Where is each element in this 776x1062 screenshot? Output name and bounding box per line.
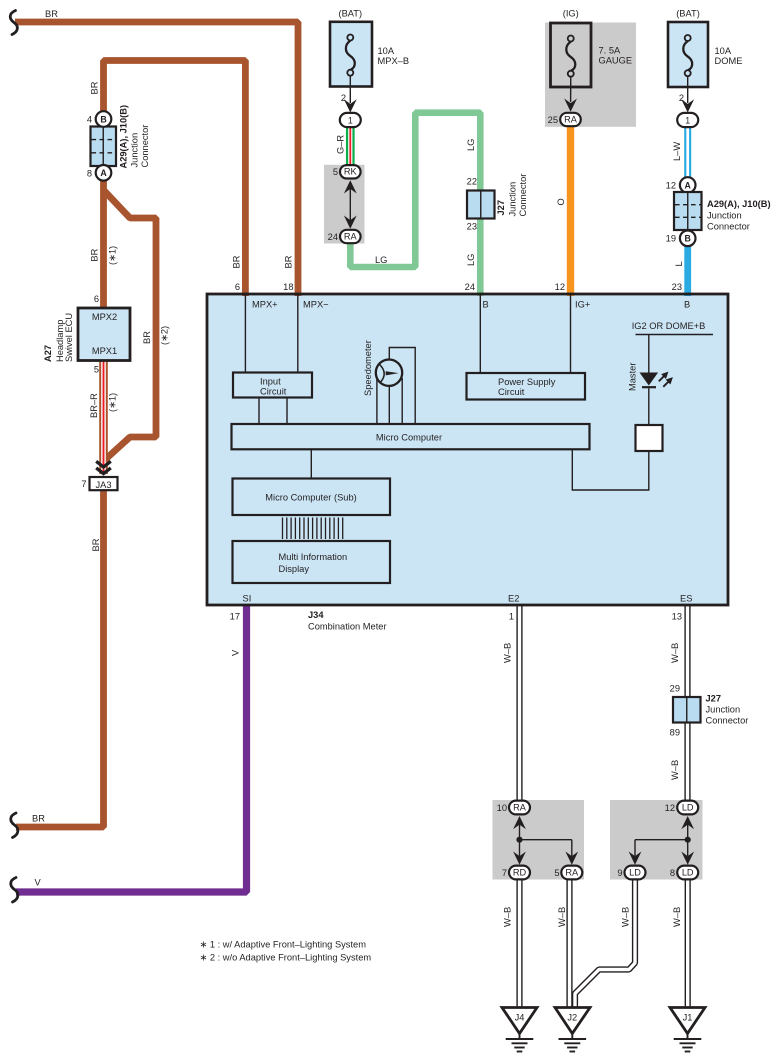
svg-text:Micro Computer (Sub): Micro Computer (Sub)	[265, 493, 356, 503]
svg-text:LD: LD	[682, 868, 694, 878]
main box J34 fill	[207, 294, 728, 605]
svg-text:A29(A), J10(B): A29(A), J10(B)	[707, 199, 771, 209]
svg-text:5: 5	[333, 167, 338, 177]
svg-text:ES: ES	[680, 594, 692, 604]
svg-text:LD: LD	[682, 803, 694, 813]
pin B circle of right junction connector	[680, 231, 696, 247]
pin A circle of left junction connector	[96, 165, 112, 181]
svg-text:W–B: W–B	[672, 907, 682, 927]
svg-text:23: 23	[467, 222, 477, 232]
svg-text:SI: SI	[243, 594, 252, 604]
arrow down into LD 8	[687, 840, 689, 856]
svg-text:RK: RK	[344, 167, 358, 177]
svg-text:IG2 OR DOME+B: IG2 OR DOME+B	[632, 321, 706, 331]
svg-text:Junction: Junction	[508, 182, 518, 217]
wire from resistor to micro computer	[572, 450, 649, 491]
svg-text:Connector: Connector	[140, 125, 150, 168]
svg-text:(IG): (IG)	[563, 9, 579, 19]
svg-text:W–B: W–B	[670, 643, 680, 663]
svg-text:B: B	[483, 300, 489, 310]
ground J4 triangle	[502, 1008, 537, 1034]
svg-text:W–B: W–B	[621, 907, 631, 927]
svg-text:W–B: W–B	[557, 907, 567, 927]
wire LG from RA over to pin 24 B	[350, 113, 480, 296]
svg-text:A: A	[100, 168, 107, 178]
svg-text:5: 5	[94, 365, 99, 375]
svg-text:7: 7	[502, 868, 507, 878]
break symbol BR bottom-left	[11, 813, 18, 838]
svg-text:W–B: W–B	[503, 643, 513, 663]
svg-text:Power Supply: Power Supply	[498, 377, 556, 387]
svg-text:10A: 10A	[378, 46, 395, 56]
wire BR junction A down to A27 ECU pin 6	[100, 178, 107, 309]
svg-text:BR: BR	[45, 9, 58, 19]
wire across to LD 9 branch	[635, 839, 688, 841]
stub micro computer to sub	[310, 449, 312, 478]
svg-text:24: 24	[328, 232, 338, 242]
wire W-B from RD to ground J4	[516, 880, 522, 1008]
arrow down into LD 9	[634, 840, 636, 856]
svg-text:B: B	[100, 114, 106, 124]
wire W-B from RA to ground J2	[566, 880, 572, 1008]
wire O orange from RA to pin 12 IG+	[567, 126, 574, 296]
LED master indicator	[640, 335, 676, 426]
svg-text:17: 17	[230, 612, 240, 622]
svg-text:12: 12	[666, 180, 676, 190]
svg-text:BR–R: BR–R	[89, 393, 99, 418]
ground J1 earth bars	[674, 1031, 702, 1052]
svg-text:13: 13	[672, 612, 682, 622]
svg-text:Display: Display	[279, 564, 310, 574]
svg-text:Circuit: Circuit	[260, 387, 287, 397]
svg-text:A27: A27	[43, 345, 53, 362]
svg-text:LG: LG	[375, 255, 387, 265]
svg-text:MPX−: MPX−	[303, 300, 329, 310]
wire L-W striped from circle 1 to junction A	[684, 127, 691, 178]
svg-text:MPX1: MPX1	[92, 346, 117, 356]
fuse DOME element	[683, 35, 692, 76]
svg-text:MPX2: MPX2	[92, 312, 117, 322]
svg-text:L–W: L–W	[672, 142, 682, 161]
junction connector J27 bottom box	[673, 697, 701, 723]
svg-text:22: 22	[467, 177, 477, 187]
svg-text:18: 18	[283, 282, 293, 292]
fuse GAUGE element	[566, 36, 575, 77]
svg-text:RA: RA	[565, 868, 579, 878]
break symbol V bottom-left	[11, 878, 18, 903]
stubs input circuit to micro computer	[258, 398, 260, 425]
svg-text:9: 9	[617, 868, 622, 878]
svg-text:Multi Information: Multi Information	[279, 552, 348, 562]
svg-text:BR: BR	[284, 255, 294, 268]
ground J1 triangle	[670, 1008, 705, 1034]
svg-text:BR: BR	[232, 255, 242, 268]
svg-text:J27: J27	[496, 200, 506, 216]
arrow from fuse to circle 1	[687, 76, 689, 103]
arrow down into RA 5	[571, 840, 573, 856]
wire W-B from pin 13 ES down to LD	[684, 604, 690, 800]
wire W-B from pin 1 E2 down to RA	[516, 604, 522, 800]
wire BR-R (*1) striped below A27	[99, 360, 108, 474]
svg-text:BR: BR	[32, 814, 45, 824]
pin A circle of right junction connector	[680, 177, 696, 193]
wire L cyan from junction B to pin 23 B	[684, 245, 691, 296]
svg-text:(BAT): (BAT)	[339, 9, 363, 19]
svg-text:Connector: Connector	[706, 716, 749, 726]
svg-text:A: A	[685, 180, 692, 190]
svg-text:∗ 1 : w/ Adaptive Front–Lighti: ∗ 1 : w/ Adaptive Front–Lighting System	[200, 940, 367, 950]
svg-text:Swivel ECU: Swivel ECU	[64, 313, 74, 362]
A27 Headlamp Swivel ECU box	[78, 308, 130, 361]
fuse MPX-B element	[346, 35, 355, 76]
wire BR (*2) branch bypassing A27	[103, 190, 157, 462]
gray shield box behind GAUGE fuse	[545, 23, 636, 127]
svg-text:BR: BR	[90, 248, 100, 261]
svg-text:LD: LD	[629, 868, 641, 878]
svg-text:J4: J4	[515, 1013, 525, 1023]
svg-text:Connector: Connector	[707, 222, 750, 232]
arrow from fuse to RA	[570, 77, 572, 103]
svg-text:10: 10	[497, 803, 507, 813]
svg-text:BR: BR	[91, 538, 101, 551]
wire across to RA branch	[520, 839, 572, 841]
svg-text:1: 1	[348, 115, 353, 125]
svg-text:Combination Meter: Combination Meter	[308, 622, 387, 632]
wire BR from junction connector B up and over to MPX+ pin 6	[104, 61, 246, 297]
svg-text:12: 12	[665, 803, 675, 813]
ground J2 earth bars	[559, 1031, 587, 1052]
junction dot right ground block	[685, 837, 691, 843]
svg-text:RA: RA	[564, 115, 578, 125]
svg-text:4: 4	[87, 115, 92, 125]
micro computer box	[232, 424, 590, 449]
svg-text:1: 1	[509, 612, 514, 622]
svg-text:10A: 10A	[715, 46, 732, 56]
pin stub MPX+	[244, 295, 246, 373]
fuse GAUGE box	[551, 23, 592, 87]
input circuit box	[233, 373, 312, 398]
svg-text:J2: J2	[567, 1013, 577, 1023]
junction connector A29(A) J10(B) left box	[91, 127, 117, 167]
relay connector RA	[340, 230, 361, 243]
pin B circle of left junction connector	[96, 111, 112, 127]
svg-text:8: 8	[670, 868, 675, 878]
svg-text:BR: BR	[142, 331, 152, 344]
pin stub MPX-	[297, 295, 299, 373]
arrow from fuse to circle 1	[349, 76, 351, 104]
svg-text:A29(A), J10(B): A29(A), J10(B)	[119, 105, 129, 169]
svg-text:(∗2): (∗2)	[160, 326, 170, 345]
relay connector LD 9	[625, 866, 646, 880]
svg-text:Connector: Connector	[518, 174, 528, 217]
relay connector LD top of right ground block	[677, 801, 698, 815]
svg-text:JA3: JA3	[95, 480, 111, 490]
svg-text:BR: BR	[90, 81, 100, 94]
fuse DOME box	[668, 22, 708, 87]
wire BR below JA3 to bottom-left break	[16, 490, 104, 827]
relay connector LD 8	[677, 866, 698, 880]
svg-text:7: 7	[81, 479, 86, 489]
svg-text:Speedometer: Speedometer	[363, 340, 373, 396]
wire W-B from LD 9 jog to ground J2	[575, 880, 635, 1008]
circle 1 connector	[340, 113, 361, 127]
junction connector J27 top box	[467, 191, 495, 219]
svg-text:7. 5A: 7. 5A	[599, 46, 622, 56]
svg-text:MPX–B: MPX–B	[378, 56, 410, 66]
svg-text:J1: J1	[683, 1013, 693, 1023]
relay connector RA 5	[561, 866, 582, 880]
ground J2 triangle	[555, 1008, 590, 1034]
power supply circuit box	[467, 373, 586, 400]
svg-text:GAUGE: GAUGE	[599, 56, 633, 66]
svg-text:Junction: Junction	[706, 705, 741, 715]
svg-text:RD: RD	[513, 868, 527, 878]
svg-text:B: B	[685, 234, 691, 244]
ribbon comb between sub and display	[283, 518, 343, 540]
junction connector A29(A) J10(B) right box	[674, 192, 702, 230]
svg-text:6: 6	[94, 294, 99, 304]
relay connector RA top of ground block	[509, 801, 530, 815]
svg-text:RA: RA	[344, 232, 358, 242]
relay connector RD	[509, 866, 530, 880]
wire W-B from LD 8 to ground J1	[685, 880, 691, 1008]
relay connector RA (gauge)	[560, 113, 581, 126]
svg-text:J34: J34	[308, 610, 324, 620]
main box J34 border	[207, 294, 728, 605]
double chevron splice arrows above JA3	[96, 461, 111, 473]
svg-text:LG: LG	[466, 254, 476, 266]
multi information display box	[233, 541, 391, 583]
svg-text:V: V	[35, 878, 42, 888]
svg-text:LG: LG	[466, 139, 476, 151]
pin stub IG+	[570, 295, 572, 373]
svg-text:89: 89	[670, 728, 680, 738]
svg-text:G–R: G–R	[336, 135, 346, 154]
svg-text:29: 29	[670, 684, 680, 694]
wire G-R striped from circle 1 to RK	[346, 127, 355, 165]
svg-text:V: V	[231, 649, 241, 656]
svg-text:E2: E2	[508, 594, 519, 604]
svg-text:RA: RA	[513, 803, 527, 813]
wire V purple from pin 17 to bottom-left break	[16, 604, 247, 892]
svg-text:Circuit: Circuit	[498, 387, 525, 397]
svg-text:12: 12	[555, 282, 565, 292]
svg-text:Micro Computer: Micro Computer	[376, 433, 442, 443]
svg-text:1: 1	[685, 115, 690, 125]
gray shield box behind RK/RA relay block	[324, 165, 365, 244]
svg-text:Master: Master	[627, 363, 637, 391]
svg-text:(∗1): (∗1)	[108, 246, 118, 265]
pin stub B green	[479, 295, 481, 373]
gray shield box behind LD/LD/LD ground block	[610, 800, 703, 880]
svg-text:∗ 2 : w/o Adaptive Front–Light: ∗ 2 : w/o Adaptive Front–Lighting System	[200, 952, 372, 962]
speedometer gauge	[376, 348, 415, 425]
svg-text:DOME: DOME	[715, 56, 743, 66]
arrow down into RD	[519, 840, 521, 856]
svg-text:W–B: W–B	[670, 760, 680, 780]
svg-text:(∗1): (∗1)	[108, 393, 118, 412]
svg-text:6: 6	[235, 282, 240, 292]
micro computer sub box	[233, 479, 391, 516]
arrow up into RA	[513, 816, 526, 829]
junction dot left ground block	[516, 837, 522, 843]
svg-text:O: O	[556, 198, 566, 205]
svg-text:IG+: IG+	[575, 300, 590, 310]
svg-text:8: 8	[87, 168, 92, 178]
break symbol top-left	[10, 11, 17, 35]
svg-text:J27: J27	[706, 694, 722, 704]
svg-text:B: B	[684, 300, 690, 310]
svg-text:L: L	[674, 261, 684, 266]
svg-text:(BAT): (BAT)	[676, 9, 700, 19]
double arrow link RK to RA	[344, 180, 357, 228]
svg-text:23: 23	[672, 282, 682, 292]
svg-text:Junction: Junction	[130, 133, 140, 168]
svg-text:19: 19	[666, 234, 676, 244]
wire BR top horizontal+vertical to MPX- pin 18	[15, 22, 298, 296]
fuse MPX-B box	[330, 22, 372, 87]
relay connector RK	[340, 165, 361, 178]
svg-text:MPX+: MPX+	[252, 300, 278, 310]
svg-text:5: 5	[554, 868, 559, 878]
svg-text:24: 24	[465, 282, 475, 292]
circle 1 connector dome	[677, 113, 698, 127]
ground J4 earth bars	[506, 1031, 534, 1052]
resistor box in LED path	[636, 425, 663, 451]
svg-text:Junction: Junction	[707, 211, 742, 221]
svg-text:W–B: W–B	[503, 907, 513, 927]
arrow up into LD	[681, 816, 694, 829]
svg-text:Input: Input	[260, 377, 281, 387]
svg-text:25: 25	[548, 115, 558, 125]
JA3 connector box	[90, 477, 118, 490]
gray shield box behind RA/RD/RA ground block	[493, 800, 585, 880]
